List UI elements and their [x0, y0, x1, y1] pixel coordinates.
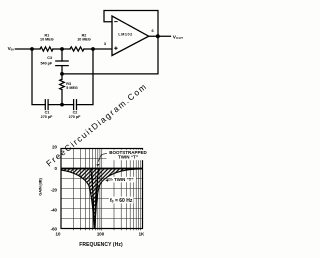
capacitor C2	[73, 100, 75, 110]
svg-text:20: 20	[52, 145, 57, 150]
svg-text:C3: C3	[47, 56, 52, 60]
feedback wire top loop	[104, 11, 158, 37]
wire R2 to op-amp	[84, 48, 112, 50]
label background boxes	[107, 150, 151, 160]
graph hatch between curves	[61, 169, 143, 229]
wire R1 to R2	[53, 48, 70, 50]
wire left drop from Vin node	[32, 49, 45, 105]
svg-text:TWIN “T”: TWIN “T”	[118, 155, 138, 160]
op-amp plus sign	[114, 47, 117, 49]
svg-text:100: 100	[97, 231, 105, 236]
wire C1 to C2	[48, 104, 74, 106]
output wire	[149, 35, 171, 37]
bootstrap rail wire	[62, 36, 158, 74]
node dot output junction	[156, 34, 160, 38]
svg-text:540 pF: 540 pF	[41, 62, 53, 66]
arrow to twin-T curve	[107, 179, 113, 181]
svg-text:1K: 1K	[139, 231, 145, 236]
arrow to bootstrapped curve	[98, 153, 108, 162]
bootstrapped sharp curve	[91, 169, 99, 229]
node dot op-amp input junction	[91, 47, 95, 51]
capacitor C3	[56, 60, 68, 62]
svg-text:270 pF: 270 pF	[69, 115, 81, 119]
wire C3 to rail node	[61, 66, 63, 80]
resistor R3	[60, 79, 65, 90]
svg-text:FREQUENCY (Hz): FREQUENCY (Hz)	[79, 242, 123, 248]
wire C2 up to op-amp input node	[77, 49, 94, 105]
node dot R1/R2 junction	[60, 47, 64, 51]
svg-text:270 pF: 270 pF	[41, 115, 53, 119]
svg-text:-20: -20	[51, 187, 58, 192]
twin-T broad curve	[61, 169, 143, 229]
op-amp minus sign	[114, 21, 117, 23]
svg-text:TWIN “T”: TWIN “T”	[114, 177, 134, 182]
graph frame	[61, 149, 143, 229]
wire R3 to bottom row	[61, 90, 63, 105]
op-amp U1 triangle	[112, 16, 149, 56]
resistor R1	[40, 47, 53, 51]
wire C3 drop from node	[61, 49, 63, 61]
svg-text:5 MEG: 5 MEG	[66, 86, 78, 90]
node dot Vin junction	[30, 47, 34, 51]
svg-text:-40: -40	[51, 208, 58, 213]
svg-text:LM102: LM102	[118, 32, 132, 36]
graph bottom ticks	[73, 229, 140, 231]
svg-text:VOUT: VOUT	[173, 34, 183, 40]
svg-text:VIN: VIN	[8, 46, 14, 52]
0 dB bold response line	[61, 168, 143, 170]
svg-text:f0 = 60 Hz: f0 = 60 Hz	[110, 198, 133, 204]
graph minor gridlines	[61, 149, 143, 229]
node dot rail junction	[60, 72, 64, 76]
svg-text:GAIN (dB): GAIN (dB)	[38, 178, 43, 196]
wire Vin to R1	[15, 48, 40, 50]
svg-text:10: 10	[56, 231, 61, 236]
node dot C1/C2 junction	[60, 103, 64, 107]
capacitor C1	[44, 100, 46, 110]
svg-text:10 MEG: 10 MEG	[77, 38, 91, 42]
svg-text:10 MEG: 10 MEG	[40, 38, 54, 42]
resistor R2	[70, 47, 84, 51]
